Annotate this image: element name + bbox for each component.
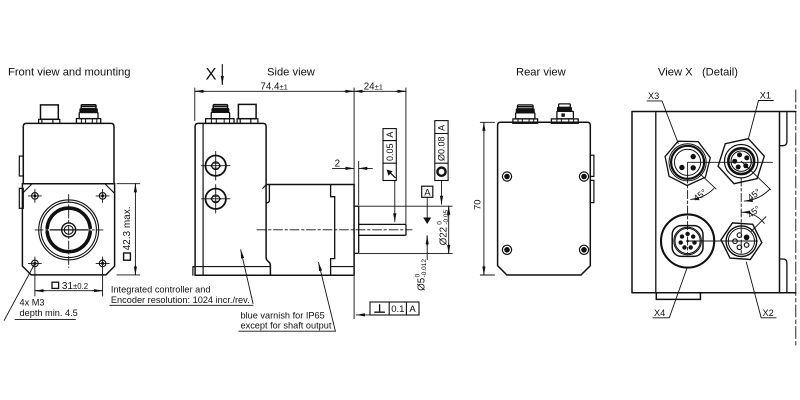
rear connector right stacked [551,104,578,123]
svg-text:45°: 45° [692,187,709,204]
svg-text:A: A [409,304,416,315]
dimension diam22 extension lines [360,206,453,253]
label blue varnish [241,310,332,330]
svg-text:Integrated controller and: Integrated controller and [111,284,211,294]
front bearing circle 2 [41,202,96,257]
svg-text:except for shaft output: except for shaft output [241,321,332,331]
svg-text:X4: X4 [654,308,665,318]
concentricity frame [435,121,448,181]
shaft boss [354,206,359,253]
svg-text:4x M3: 4x M3 [20,298,45,308]
label integrated controller underline [110,304,253,306]
motor inner bottom line right [331,266,353,268]
X4-X2 horizontal line [688,240,758,242]
front flange top-left chamfer line [23,184,32,193]
rear body [498,122,591,275]
front connector left cap [41,105,59,119]
concentricity frame text [437,125,447,161]
motor front face [353,185,355,276]
label X3 underline and leader [647,101,678,144]
svg-text:View X (Detail): View X (Detail) [658,67,738,79]
side controller bottom-left foot [193,267,195,276]
dimension 31 line [35,290,103,292]
front left tab 1 [19,156,23,176]
rear screw top-left [502,171,512,181]
connector X4 outer [661,214,714,267]
dimension 31 extension lines [35,271,103,297]
svg-text:31±0.2: 31±0.2 [62,281,88,292]
side controller box [195,123,270,275]
shaft [359,224,406,235]
front mounting hole bottom-left [28,257,41,270]
perpendicularity frame text [391,304,416,315]
front hub circle [62,223,76,237]
runout frame text [385,132,395,161]
view direction arrow [221,65,223,85]
side connector plain [238,104,256,118]
svg-text:-0.012: -0.012 [421,259,428,278]
X1 vertical centerline down to X2 [740,178,742,255]
dimension 70 extension lines [480,122,494,275]
svg-text:X3: X3 [648,91,659,101]
svg-text:Ø5: Ø5 [416,277,427,291]
svg-text:24±1: 24±1 [364,82,383,93]
leader integrated controller [241,250,253,304]
label X2 underline and leader [746,262,776,318]
connector X2 rings [726,226,757,257]
rear screw bottom-right [579,245,589,255]
rear connector left stacked [513,105,538,123]
svg-text:Encoder resolution: 1024 incr.: Encoder resolution: 1024 incr./rev. [111,295,250,305]
svg-text:45°: 45° [745,203,762,220]
leader 4x M3 [4,263,35,320]
label X4 underline and leader [653,268,687,318]
datum A box [422,186,433,197]
front flange top-right chamfer line [105,184,114,193]
connector X4 pins [679,232,697,250]
dimension 24 extension right [405,88,407,224]
svg-text:A: A [437,125,447,131]
front centerline vertical [68,195,70,268]
front mounting hole bottom-right [96,257,109,270]
dimension 70 line [483,122,485,132]
svg-text:Ø0.08: Ø0.08 [437,136,447,161]
front shaft circle [64,226,73,235]
svg-text:74.4±1: 74.4±1 [260,82,287,93]
svg-text:blue varnish for IP65: blue varnish for IP65 [241,310,325,320]
panel right tab bottom [780,259,787,293]
runout leader [394,181,396,222]
rear right tab 2 [590,180,594,202]
runout frame [383,129,396,181]
svg-text:70: 70 [472,200,483,210]
dimension 42.3 extension lines [117,184,140,275]
datum A leader [426,197,428,218]
connector X3 rings [669,144,706,181]
dimension diam5 line [426,236,428,246]
panel outline [632,112,796,293]
connector X1 pins [732,152,749,169]
svg-text:Rear view: Rear view [516,67,567,79]
X2 45 arc [742,212,765,223]
dimension 2 extension [358,162,360,206]
svg-text:0.1: 0.1 [391,304,404,315]
connector X2 pins [733,233,749,250]
front centerline horizontal [35,229,103,231]
front body [23,123,114,183]
front bearing circle outer [39,200,99,260]
svg-text:depth min. 4.5: depth min. 4.5 [20,308,78,318]
X3 vertical centerline down to X4 [687,175,689,253]
front mounting hole top-right [96,189,109,202]
label 4x M3 [20,298,78,319]
front flange outline [22,184,114,275]
perpendicularity frame [370,302,419,315]
X1 45 arc [744,190,769,202]
svg-text:X1: X1 [760,91,771,101]
rear screw bottom-left [502,245,512,255]
panel inner left line [655,112,657,293]
svg-text:X2: X2 [763,308,774,318]
perpendicularity leader [356,314,370,316]
label integrated controller [111,284,250,305]
dimension 42.3 line [134,184,136,193]
dimension diam22 text [436,209,450,245]
svg-text:2: 2 [335,158,340,169]
svg-text:0.05: 0.05 [385,143,395,161]
dimension 42.3 text [122,206,133,260]
motor face extension down [353,277,355,319]
motor top-left chamfer tick [263,185,266,189]
side screw 1 [202,152,231,181]
front left tab 2 [19,188,23,208]
label 4x M3 underline [15,319,76,321]
svg-text:A: A [385,132,395,138]
dimension 74.4 line [195,90,354,92]
svg-text:Ø22: Ø22 [438,227,449,246]
dimension diam22 line [448,206,450,216]
svg-text:42.3 max.: 42.3 max. [122,206,133,250]
X1 45 radial [741,161,771,190]
connector X1 nut [718,139,764,184]
front connector left base [39,119,60,123]
rear right tab 1 [590,155,594,176]
dimension 31 text [52,281,88,292]
connector X3 nut [665,141,710,185]
dimension 24 line [354,90,364,92]
datum A triangle [423,218,431,225]
connector X4 rings [674,227,702,255]
svg-text:-0.05: -0.05 [443,209,450,224]
panel right tab top [780,112,787,146]
shaft centerline [257,229,412,231]
connector X1 rings [725,145,758,178]
dimension 2 arrows [333,167,355,169]
svg-text:X: X [206,66,217,84]
X3 crosshair [688,162,773,175]
rear screw top-right [579,171,589,181]
connector X4 square [672,226,703,257]
dimension 74.4/24 extension middle [353,88,355,184]
X3 45 arc [691,189,714,200]
panel bottom tab [656,293,700,300]
front connector right stacked [76,105,100,124]
front mounting hole top-left [28,189,41,202]
panel centerline [795,90,797,348]
front slot line [50,229,88,231]
motor top edge [266,184,354,186]
X2 45 radial [751,217,766,232]
side bottom edge [195,274,353,276]
side connector stacked [206,105,234,124]
dimension 74.4 extension line left [194,88,196,121]
motor front cap step [331,185,335,276]
motor rear cap step [266,185,269,204]
svg-text:Front view and mounting: Front view and mounting [8,67,131,79]
svg-text:Side view: Side view [267,67,316,79]
X3 45 radial [701,174,717,189]
side controller inner bottom line [195,266,270,268]
leader blue varnish [319,262,336,331]
connector X3 pins [679,154,696,171]
X1 keyway arc [749,159,752,169]
side screw 2 [202,185,231,213]
label blue varnish underline [239,330,336,332]
svg-text:A: A [424,187,431,198]
side controller inner vertical [202,123,204,275]
dimension diam5 text [414,259,428,291]
concentricity leader [441,181,443,205]
label X1 underline and leader [748,101,773,139]
front thick ring [47,232,90,252]
connector X2 nut [721,223,762,260]
